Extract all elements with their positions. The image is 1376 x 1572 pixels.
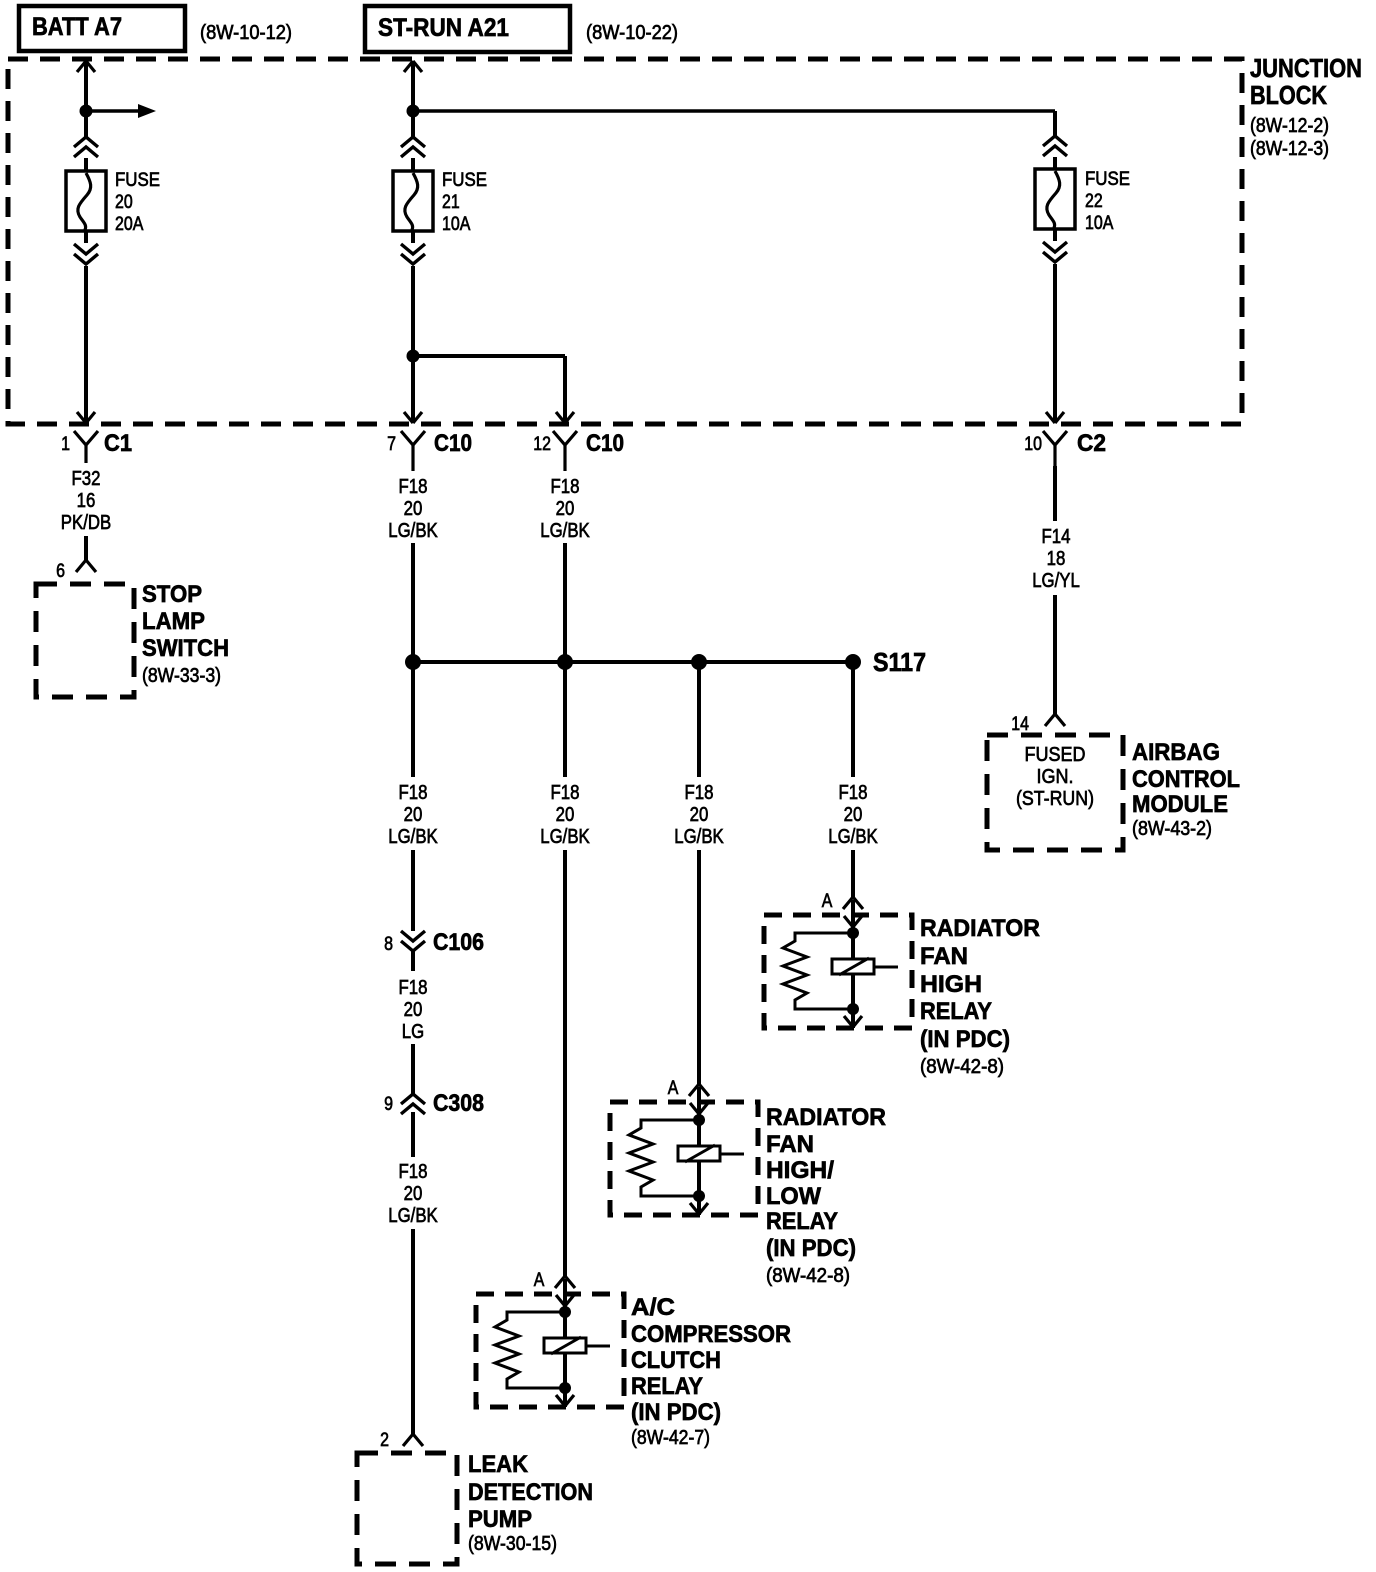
svg-text:10A: 10A bbox=[442, 214, 471, 235]
svg-text:20A: 20A bbox=[115, 214, 144, 235]
svg-text:HIGH: HIGH bbox=[920, 971, 982, 998]
svg-text:16: 16 bbox=[77, 490, 96, 512]
svg-text:JUNCTION: JUNCTION bbox=[1250, 53, 1362, 83]
svg-text:22: 22 bbox=[1085, 191, 1103, 212]
svg-text:F18: F18 bbox=[685, 782, 714, 804]
svg-text:(ST-RUN): (ST-RUN) bbox=[1016, 788, 1094, 810]
svg-text:ST-RUN A21: ST-RUN A21 bbox=[378, 14, 509, 42]
svg-text:FAN: FAN bbox=[920, 943, 968, 970]
svg-text:(8W-12-3): (8W-12-3) bbox=[1250, 138, 1329, 160]
svg-text:10: 10 bbox=[1024, 434, 1042, 455]
svg-text:C106: C106 bbox=[433, 929, 484, 956]
svg-text:F18: F18 bbox=[399, 1161, 428, 1183]
svg-text:F18: F18 bbox=[399, 476, 428, 498]
svg-text:C10: C10 bbox=[434, 430, 472, 457]
svg-text:LOW: LOW bbox=[766, 1183, 821, 1210]
svg-text:C10: C10 bbox=[586, 430, 624, 457]
svg-text:20: 20 bbox=[404, 804, 423, 826]
svg-text:20: 20 bbox=[404, 498, 423, 520]
svg-text:SWITCH: SWITCH bbox=[142, 635, 229, 662]
svg-text:1: 1 bbox=[61, 434, 70, 455]
svg-text:(8W-42-7): (8W-42-7) bbox=[631, 1427, 710, 1449]
svg-text:BATT A7: BATT A7 bbox=[32, 13, 122, 41]
svg-text:20: 20 bbox=[556, 804, 575, 826]
svg-text:FUSED: FUSED bbox=[1025, 744, 1086, 766]
svg-text:(8W-10-12): (8W-10-12) bbox=[200, 22, 292, 44]
svg-text:HIGH/: HIGH/ bbox=[766, 1157, 834, 1184]
svg-text:14: 14 bbox=[1011, 714, 1029, 735]
svg-text:C2: C2 bbox=[1077, 430, 1106, 457]
svg-text:F18: F18 bbox=[399, 782, 428, 804]
svg-text:RADIATOR: RADIATOR bbox=[766, 1104, 886, 1131]
svg-text:20: 20 bbox=[690, 804, 709, 826]
svg-text:2: 2 bbox=[380, 1430, 389, 1451]
svg-text:RELAY: RELAY bbox=[631, 1373, 703, 1400]
svg-text:LG/BK: LG/BK bbox=[674, 826, 724, 848]
svg-text:20: 20 bbox=[404, 999, 423, 1021]
svg-text:(IN PDC): (IN PDC) bbox=[766, 1235, 856, 1262]
svg-text:F18: F18 bbox=[399, 977, 428, 999]
svg-text:LG/BK: LG/BK bbox=[388, 520, 438, 542]
svg-text:(IN PDC): (IN PDC) bbox=[920, 1026, 1010, 1053]
svg-text:A/C: A/C bbox=[631, 1294, 675, 1321]
svg-text:C308: C308 bbox=[433, 1090, 484, 1117]
svg-text:LAMP: LAMP bbox=[142, 608, 205, 635]
svg-text:AIRBAG: AIRBAG bbox=[1132, 739, 1220, 766]
svg-text:RELAY: RELAY bbox=[920, 998, 992, 1025]
svg-text:20: 20 bbox=[115, 192, 133, 213]
svg-text:C1: C1 bbox=[104, 430, 132, 457]
svg-text:RELAY: RELAY bbox=[766, 1208, 838, 1235]
svg-text:LG/BK: LG/BK bbox=[540, 520, 590, 542]
svg-text:F18: F18 bbox=[551, 476, 580, 498]
svg-text:12: 12 bbox=[533, 434, 551, 455]
svg-text:(8W-33-3): (8W-33-3) bbox=[142, 665, 221, 687]
svg-text:PK/DB: PK/DB bbox=[61, 512, 111, 534]
svg-text:LG/BK: LG/BK bbox=[540, 826, 590, 848]
svg-text:CLUTCH: CLUTCH bbox=[631, 1347, 721, 1374]
svg-text:8: 8 bbox=[384, 934, 393, 955]
svg-text:RADIATOR: RADIATOR bbox=[920, 915, 1040, 942]
svg-text:LG/YL: LG/YL bbox=[1032, 570, 1080, 592]
svg-text:A: A bbox=[822, 891, 833, 912]
svg-text:7: 7 bbox=[387, 434, 396, 455]
svg-text:BLOCK: BLOCK bbox=[1250, 80, 1327, 110]
svg-text:(8W-10-22): (8W-10-22) bbox=[586, 22, 678, 44]
svg-text:(8W-42-8): (8W-42-8) bbox=[920, 1056, 1004, 1078]
svg-text:IGN.: IGN. bbox=[1037, 766, 1074, 788]
svg-text:(8W-30-15): (8W-30-15) bbox=[468, 1533, 557, 1555]
svg-text:9: 9 bbox=[384, 1094, 393, 1115]
svg-text:(8W-12-2): (8W-12-2) bbox=[1250, 115, 1329, 137]
svg-text:LG/BK: LG/BK bbox=[388, 1205, 438, 1227]
svg-text:20: 20 bbox=[844, 804, 863, 826]
svg-text:CONTROL: CONTROL bbox=[1132, 766, 1240, 793]
svg-text:20: 20 bbox=[556, 498, 575, 520]
svg-text:LEAK: LEAK bbox=[468, 1451, 529, 1478]
svg-text:FUSE: FUSE bbox=[115, 170, 160, 191]
svg-text:20: 20 bbox=[404, 1183, 423, 1205]
svg-text:LG/BK: LG/BK bbox=[828, 826, 878, 848]
svg-text:18: 18 bbox=[1047, 548, 1066, 570]
svg-text:F18: F18 bbox=[551, 782, 580, 804]
svg-text:(8W-42-8): (8W-42-8) bbox=[766, 1265, 850, 1287]
svg-text:FUSE: FUSE bbox=[442, 170, 487, 191]
svg-text:A: A bbox=[534, 1270, 545, 1291]
svg-text:PUMP: PUMP bbox=[468, 1506, 532, 1533]
svg-text:(8W-43-2): (8W-43-2) bbox=[1132, 818, 1212, 840]
svg-text:S117: S117 bbox=[873, 647, 926, 677]
svg-text:10A: 10A bbox=[1085, 213, 1114, 234]
svg-text:6: 6 bbox=[56, 561, 65, 582]
svg-text:MODULE: MODULE bbox=[1132, 791, 1228, 818]
svg-text:FUSE: FUSE bbox=[1085, 169, 1130, 190]
svg-text:LG/BK: LG/BK bbox=[388, 826, 438, 848]
svg-text:(IN PDC): (IN PDC) bbox=[631, 1399, 721, 1426]
svg-text:STOP: STOP bbox=[142, 581, 202, 608]
svg-text:LG: LG bbox=[402, 1021, 424, 1043]
svg-text:21: 21 bbox=[442, 192, 460, 213]
svg-text:A: A bbox=[668, 1078, 679, 1099]
svg-text:DETECTION: DETECTION bbox=[468, 1479, 593, 1506]
svg-text:FAN: FAN bbox=[766, 1131, 814, 1158]
svg-text:F14: F14 bbox=[1042, 526, 1071, 548]
svg-text:COMPRESSOR: COMPRESSOR bbox=[631, 1321, 791, 1348]
svg-text:F18: F18 bbox=[839, 782, 868, 804]
svg-text:F32: F32 bbox=[72, 468, 101, 490]
